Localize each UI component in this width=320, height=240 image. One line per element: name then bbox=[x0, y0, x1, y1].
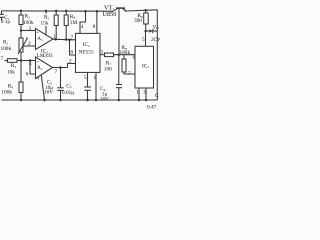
svg-text:4: 4 bbox=[37, 75, 40, 81]
svg-text:R7: R7 bbox=[106, 60, 112, 66]
svg-text:15k: 15k bbox=[41, 21, 49, 27]
op-amp A2 bbox=[36, 57, 53, 79]
wire A2 output bbox=[53, 67, 68, 69]
wire pin8 power upper bbox=[45, 11, 47, 14]
wire IC3 pin5 bbox=[145, 31, 147, 46]
svg-text:+: + bbox=[36, 30, 39, 36]
wire IC3 pin3 bbox=[145, 88, 147, 100]
node A2 pin5 wire bbox=[29, 59, 32, 62]
svg-text:16V: 16V bbox=[100, 97, 109, 103]
svg-text:0.1μ: 0.1μ bbox=[1, 19, 11, 25]
svg-text:390: 390 bbox=[134, 18, 142, 24]
op-amp A1 bbox=[36, 29, 54, 50]
svg-text:1M: 1M bbox=[70, 20, 78, 26]
wire pin3 A1 bbox=[21, 30, 36, 32]
svg-text:+: + bbox=[36, 59, 39, 65]
svg-text:7: 7 bbox=[55, 69, 58, 75]
svg-text:VD: VD bbox=[153, 24, 160, 30]
capacitor C1 bbox=[1, 11, 3, 14]
IC3 box bbox=[135, 46, 154, 88]
svg-text:NE555: NE555 bbox=[79, 49, 94, 55]
svg-text:R2: R2 bbox=[25, 14, 31, 20]
svg-text:7: 7 bbox=[128, 71, 131, 77]
svg-text:U850: U850 bbox=[102, 11, 116, 18]
wire IC3 pin1 bbox=[138, 88, 140, 100]
svg-text:3: 3 bbox=[143, 90, 146, 96]
svg-text:8: 8 bbox=[93, 24, 96, 30]
svg-text:6: 6 bbox=[71, 50, 74, 56]
wire to 555 pin2 bbox=[68, 64, 76, 68]
svg-text:16V: 16V bbox=[44, 89, 53, 95]
resistor R8 180k bbox=[123, 55, 125, 59]
svg-text:4: 4 bbox=[81, 24, 84, 30]
svg-text:7: 7 bbox=[71, 35, 74, 41]
wire top rail left bbox=[2, 10, 114, 12]
wire top rail right bbox=[126, 10, 157, 11]
svg-text:1: 1 bbox=[136, 90, 139, 96]
svg-text:6: 6 bbox=[133, 55, 136, 61]
svg-text:100: 100 bbox=[104, 67, 112, 73]
svg-text:100k: 100k bbox=[1, 46, 12, 52]
node pot top bbox=[20, 29, 23, 32]
resistor R5 15k bbox=[55, 11, 57, 15]
wire right edge bbox=[156, 10, 158, 100]
svg-text:2: 2 bbox=[69, 59, 72, 65]
capacitor C3 bbox=[84, 86, 91, 88]
svg-text:A2: A2 bbox=[37, 65, 43, 71]
wire wiper to pin2 bbox=[23, 45, 36, 47]
svg-text:100k: 100k bbox=[1, 90, 12, 96]
svg-text:1: 1 bbox=[53, 34, 56, 40]
wire bottom ground rail bbox=[2, 99, 158, 101]
svg-text:6: 6 bbox=[26, 71, 29, 77]
wire A1 output bbox=[53, 38, 76, 41]
node rail dots bbox=[20, 10, 23, 13]
svg-text:A1: A1 bbox=[37, 36, 43, 42]
wire 555 pin4 bbox=[80, 11, 86, 33]
resistor R6 1M bbox=[65, 11, 67, 15]
svg-text:3: 3 bbox=[29, 26, 32, 32]
svg-text:IC3: IC3 bbox=[142, 63, 149, 69]
node R3 junction bbox=[20, 59, 23, 62]
potentiometer R1 bbox=[20, 31, 22, 39]
svg-text:10k: 10k bbox=[7, 69, 15, 75]
wire pin8 power lower bbox=[45, 26, 47, 35]
wire A2 pin4 ground bbox=[41, 75, 44, 100]
wire 555 pin1 bbox=[95, 72, 97, 100]
resistor R4 bbox=[19, 82, 23, 93]
svg-text:5: 5 bbox=[142, 37, 145, 43]
svg-text:R3: R3 bbox=[11, 63, 17, 69]
zener diode VD bbox=[146, 30, 150, 32]
capacitor C2 bbox=[60, 68, 62, 88]
capacitor C4 bbox=[118, 55, 120, 85]
svg-text:5: 5 bbox=[84, 75, 87, 81]
resistor R3 bbox=[5, 60, 8, 62]
wire VT1 base bbox=[118, 9, 120, 55]
svg-text:C3: C3 bbox=[66, 83, 72, 89]
IC2 NE555 box bbox=[76, 33, 101, 72]
resistor R7 100 bbox=[100, 54, 105, 56]
svg-text:2: 2 bbox=[28, 41, 31, 47]
resistor R2 bbox=[20, 11, 22, 15]
svg-text:IC2: IC2 bbox=[83, 42, 90, 48]
svg-text:R1: R1 bbox=[3, 40, 9, 46]
svg-text:180k: 180k bbox=[120, 50, 131, 56]
svg-text:LM393: LM393 bbox=[37, 53, 53, 59]
svg-text:3: 3 bbox=[100, 49, 103, 55]
wire to 555 pin6 bbox=[70, 40, 76, 55]
svg-text:0.47: 0.47 bbox=[147, 105, 157, 111]
transistor VT1 bbox=[114, 9, 118, 12]
wire 555 pin8 bbox=[96, 11, 98, 33]
svg-text:1: 1 bbox=[94, 75, 97, 81]
wire 555 pin5 bbox=[87, 72, 89, 87]
wire to A2 pin6 bbox=[30, 61, 36, 75]
svg-text:5: 5 bbox=[29, 61, 32, 67]
node pin6 riser bbox=[68, 38, 71, 41]
svg-text:0.01μ: 0.01μ bbox=[62, 90, 74, 96]
svg-text:C: C bbox=[155, 93, 159, 99]
resistor R9 390 bbox=[144, 9, 147, 12]
svg-text:2CW5: 2CW5 bbox=[151, 37, 160, 43]
svg-text:7: 7 bbox=[1, 56, 4, 62]
